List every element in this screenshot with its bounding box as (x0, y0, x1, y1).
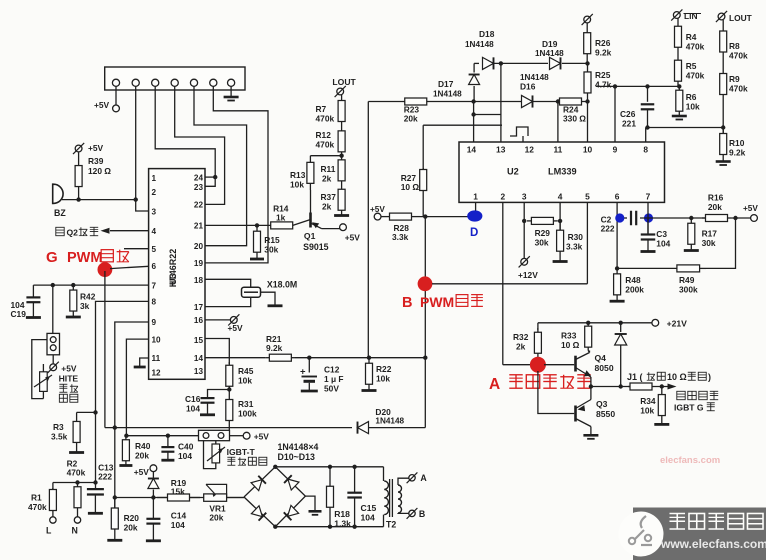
resistor R28 3.3k (381, 213, 420, 242)
terminal +5V (R16) (743, 204, 758, 221)
svg-text:LIN: LIN (684, 11, 698, 21)
svg-text:3: 3 (522, 192, 527, 202)
wire CN1 pin2 to U3 pin3 rail (136, 86, 149, 211)
label IGBT-T temp (227, 447, 267, 465)
svg-text:4: 4 (152, 227, 157, 236)
node R5/R6 (677, 84, 681, 88)
svg-text:5: 5 (152, 245, 157, 254)
wire U2 pin7 column (647, 202, 649, 234)
terminal +5V (R39 top) (73, 143, 104, 154)
svg-text:1: 1 (152, 174, 157, 183)
wire bridge right to ground (305, 496, 321, 515)
resistor R45 10k (226, 362, 254, 390)
svg-text:R32: R32 (513, 332, 529, 342)
wire pin9 line (596, 84, 679, 88)
resistor R4 470k (675, 19, 705, 56)
svg-text:+5V: +5V (743, 204, 758, 213)
svg-text:Q4: Q4 (595, 353, 607, 363)
svg-text:6: 6 (152, 262, 157, 271)
terminal +5V (clamp diode) (134, 465, 157, 477)
label to IGBT gate (674, 391, 718, 412)
label B PWM-in (red) (402, 294, 483, 311)
svg-text:R26: R26 (595, 38, 611, 48)
svg-text:470k: 470k (729, 51, 748, 61)
resistor R48 200k (610, 268, 645, 301)
wire R27 to R28 line (422, 192, 424, 217)
resistor R1 470k (28, 483, 56, 513)
thermistor HITE sensor (34, 364, 52, 399)
resistor R19 15k (157, 478, 200, 501)
potentiometer VR1 20k (204, 484, 227, 522)
transformer T2 core (390, 479, 393, 517)
wire U3 pin24 stub to rail (205, 175, 217, 179)
svg-text:+12V: +12V (518, 270, 538, 280)
svg-text:104: 104 (178, 451, 192, 461)
terminal +21V (652, 319, 687, 329)
svg-text:U2: U2 (507, 167, 519, 177)
svg-text:C12: C12 (324, 365, 340, 375)
node A (red dot) (530, 357, 546, 373)
wire CN1 pin4 staircase to U3 pin22 (175, 86, 225, 204)
svg-text:LOUT: LOUT (332, 77, 356, 87)
wire U3 pin15 (205, 339, 229, 365)
thermistor IGBT-T (204, 441, 226, 469)
svg-text:D20: D20 (375, 407, 391, 417)
resistor R11 2k (321, 156, 346, 185)
wire VR1 to bridge (227, 497, 244, 499)
wire mains rail y482 (53, 480, 98, 484)
svg-text:T2: T2 (386, 520, 396, 530)
diode (21V clamp) (615, 323, 627, 387)
resistor R18 1.3k (327, 467, 352, 529)
svg-text:470k: 470k (316, 114, 335, 124)
connector CN1 (8-pin header) (105, 67, 245, 90)
svg-text:C3: C3 (656, 229, 667, 239)
svg-text:104: 104 (186, 404, 200, 414)
terminal L (46, 512, 56, 536)
svg-text:4.7k: 4.7k (595, 80, 612, 90)
svg-text:2k: 2k (322, 202, 332, 212)
resistor R22 10k (362, 358, 392, 391)
resistor R17 30k (684, 218, 718, 251)
U2 pin numbers top (467, 145, 649, 155)
svg-text:20k: 20k (708, 202, 722, 212)
wire U3 pin18 to crystal (205, 279, 251, 287)
capacitor C13 222 (87, 463, 114, 514)
svg-text:470k: 470k (28, 502, 47, 512)
terminal LIN (671, 9, 701, 21)
diode D16 1N4148 (520, 73, 549, 108)
label 1N4148x4 D10~D13 (278, 442, 319, 462)
svg-text:22: 22 (194, 200, 204, 209)
svg-text:C15: C15 (361, 503, 377, 513)
svg-text:+5V: +5V (345, 233, 361, 243)
resistor R7 470k (316, 95, 346, 127)
svg-text:15: 15 (194, 336, 204, 345)
watermark box (bottom right) (619, 508, 766, 560)
wire U2 pin8 column (645, 128, 647, 143)
terminal +12V (518, 256, 538, 280)
wire R27 line (423, 124, 502, 126)
svg-text:D17: D17 (438, 79, 454, 89)
label HITE (59, 374, 79, 403)
wire U2 pin5 column (586, 202, 588, 283)
svg-text:R39: R39 (88, 156, 104, 166)
svg-text:PWM: PWM (67, 250, 102, 266)
label R49 (679, 275, 698, 295)
resistor R15 30k (250, 225, 280, 259)
svg-text:50V: 50V (324, 384, 339, 394)
svg-text:2: 2 (500, 192, 505, 202)
IC U2 LM339 (459, 142, 665, 202)
resistor R37 2k (321, 185, 350, 216)
transistor Q1 S9015 (293, 190, 340, 252)
node D (blue) (467, 210, 482, 239)
IC U3 HT46R22 (149, 169, 205, 380)
svg-text:9: 9 (152, 318, 157, 327)
svg-text:104: 104 (656, 239, 670, 249)
svg-text:24: 24 (194, 173, 204, 182)
svg-text:120 Ω: 120 Ω (88, 166, 111, 176)
svg-text:15k: 15k (171, 487, 185, 497)
svg-text:D19: D19 (542, 39, 558, 49)
svg-text:R33: R33 (561, 331, 577, 341)
capacitor C15 104 (347, 467, 376, 527)
svg-text:10k: 10k (686, 102, 700, 112)
wire D18 line (474, 62, 479, 64)
svg-text:13: 13 (194, 367, 204, 376)
svg-text:R12: R12 (316, 130, 332, 140)
svg-text:R15: R15 (264, 235, 280, 245)
diode D17 1N4148 (433, 63, 480, 101)
svg-text:): ) (708, 372, 711, 382)
svg-text:IGBT G: IGBT G (674, 403, 704, 413)
wire HITE loop (32, 340, 47, 399)
U3 pin numbers right (194, 173, 204, 376)
resistor R29 30k (527, 217, 558, 247)
resistor J1 (628, 383, 654, 390)
svg-text:10: 10 (583, 145, 593, 155)
svg-text:10k: 10k (376, 374, 390, 384)
resistor R40 20k (119, 436, 150, 466)
node R12/R11 (339, 154, 343, 158)
svg-text:20k: 20k (135, 451, 149, 461)
diode D19 1N4148 (535, 39, 564, 69)
wire U2 pin2 column (502, 202, 504, 364)
wire pin2 to node A (503, 364, 532, 366)
node R45/R31 junction (227, 387, 231, 391)
terminal +5V (IGBT-T) (243, 432, 269, 442)
wire U2 pin13 column (500, 63, 502, 142)
svg-text:1N4148: 1N4148 (535, 49, 564, 58)
resistor R25 4.7k (584, 63, 612, 101)
resistor R16 20k (702, 193, 731, 222)
wire R9 to R10 (722, 105, 724, 137)
wire R13 top to LOUT rail (310, 155, 341, 157)
svg-text:14: 14 (194, 354, 204, 363)
svg-text:3.5k: 3.5k (51, 432, 68, 442)
svg-text:R17: R17 (702, 229, 718, 239)
svg-text:1N4148×4: 1N4148×4 (278, 442, 319, 452)
capacitor C14 104 (146, 498, 187, 541)
svg-text:www.elecfans.com: www.elecfans.com (660, 537, 766, 551)
wire U2 pin9 column (613, 84, 617, 142)
resistor R13 10k (290, 156, 314, 190)
svg-text:12: 12 (152, 368, 162, 377)
terminal B (407, 508, 426, 519)
diode D (5V clamp) (148, 472, 159, 498)
svg-text:HITE: HITE (59, 374, 79, 384)
svg-text:19: 19 (194, 259, 204, 268)
svg-text:18: 18 (194, 276, 204, 285)
svg-text:IGBT-T: IGBT-T (227, 447, 256, 457)
svg-text:23: 23 (194, 183, 204, 192)
crystal X18.0M (242, 280, 298, 298)
svg-text:+5V: +5V (61, 364, 77, 374)
wire R23 to D16 to R24 (429, 99, 556, 103)
svg-text:R7: R7 (316, 104, 327, 114)
svg-text:11: 11 (152, 354, 161, 363)
wire U2 pin3 column (522, 202, 526, 258)
resistor R20 20k (107, 498, 139, 541)
svg-text:R49: R49 (679, 275, 695, 285)
U3 pin numbers left (152, 174, 162, 377)
svg-text:R25: R25 (595, 70, 611, 80)
wire temp-sense line (124, 434, 198, 438)
svg-text:1 μ F: 1 μ F (324, 374, 344, 384)
svg-text:20k: 20k (124, 523, 138, 533)
resistor R6 10k (672, 86, 700, 119)
diode D12 (bridge bottom-left) (251, 506, 266, 521)
svg-text:R18: R18 (334, 509, 350, 519)
label J1 (627, 372, 711, 382)
U2 pin numbers bottom (473, 192, 650, 202)
svg-text:C14: C14 (171, 511, 187, 521)
svg-text:1N4148: 1N4148 (433, 90, 462, 99)
resistor R30 3.3k (553, 221, 584, 262)
svg-text:D16: D16 (520, 82, 536, 92)
transformer T2 primary (384, 467, 389, 527)
svg-text:+21V: +21V (667, 319, 688, 329)
connector HITE (2-pin) (47, 333, 60, 354)
node B (red dot) (418, 276, 433, 291)
svg-text:2k: 2k (322, 174, 332, 184)
svg-text:2k: 2k (516, 342, 526, 352)
svg-text:9.2k: 9.2k (266, 343, 283, 353)
svg-text:R8: R8 (729, 41, 740, 51)
svg-text:R22: R22 (376, 364, 392, 374)
wire pin13-pin14 jog (474, 114, 501, 116)
resistor R39 120ohm (75, 153, 111, 200)
svg-text:30k: 30k (702, 238, 716, 248)
svg-text:X18.0M: X18.0M (267, 280, 297, 290)
svg-text:9: 9 (613, 145, 618, 155)
wire R25 to U2 pin10 (587, 102, 589, 143)
ground (CN1 pin7) (224, 86, 239, 100)
wire B line to U2 pin5 (432, 283, 587, 285)
wire R16 to +5V (731, 216, 751, 220)
wire R49 to R16 node (706, 218, 736, 268)
svg-text:R4: R4 (686, 32, 697, 42)
svg-text:470k: 470k (686, 71, 705, 81)
svg-text:R11: R11 (321, 164, 336, 174)
svg-text:R29: R29 (535, 228, 551, 238)
wire U3 pin10 rail (126, 339, 148, 436)
svg-text:R3: R3 (53, 422, 64, 432)
svg-text:1N4148: 1N4148 (375, 417, 404, 426)
wire IGBT-T to +5V (230, 435, 244, 437)
wire D18-D19 (494, 61, 548, 65)
svg-text:+5V: +5V (94, 100, 110, 110)
svg-text:10k: 10k (640, 406, 654, 416)
svg-text:470k: 470k (67, 468, 86, 478)
svg-text:11: 11 (553, 145, 562, 155)
svg-text:470k: 470k (686, 42, 705, 52)
terminal +5V (HITE) (48, 355, 77, 374)
wire pin11 column (556, 99, 560, 142)
svg-text:470k: 470k (729, 84, 748, 94)
resistor R21 9.2k (266, 334, 295, 361)
wire BZ to pin3 rail (62, 197, 138, 201)
svg-text:7: 7 (646, 192, 651, 202)
transistor Q4 8050 (576, 351, 614, 387)
label A drive-base (red) (489, 375, 591, 393)
svg-text:R40: R40 (135, 441, 151, 451)
watermark elecfans pink (660, 455, 720, 466)
resistor R9 470k (720, 63, 748, 105)
wire stub U3 pin5 (124, 248, 149, 250)
svg-text:+5V: +5V (134, 467, 150, 477)
svg-text:R6: R6 (686, 92, 697, 102)
diode D20 1N4148 (358, 407, 405, 434)
svg-text:A: A (420, 473, 427, 483)
capacitor C19 104 (11, 285, 41, 319)
wire G rail down to D20 line (104, 271, 106, 428)
resistor R12 470k (316, 127, 346, 156)
svg-text:C26: C26 (620, 109, 636, 119)
wire U2 pin14 column (471, 102, 475, 143)
svg-text:10k: 10k (238, 376, 252, 386)
wire arrow U3 pin4 (101, 228, 149, 234)
svg-text:G: G (46, 249, 58, 266)
resistor R27 10ohm (401, 125, 427, 192)
wire D20 to B column (369, 427, 425, 429)
wire R23 line (368, 101, 402, 103)
resistor R42 3k (66, 285, 96, 317)
diode D11 (bridge top-right) (284, 475, 299, 490)
svg-text:9.2k: 9.2k (729, 148, 746, 158)
wire J1 line (589, 384, 631, 388)
svg-text:A: A (489, 376, 500, 393)
svg-text:+5V: +5V (228, 323, 244, 333)
svg-text:R16: R16 (708, 193, 724, 203)
svg-text:R31: R31 (238, 399, 254, 409)
connector IGBT-T (2-pin) (199, 430, 230, 440)
resistor R24 330ohm (556, 98, 586, 124)
wire A down to Q3 base (538, 371, 574, 414)
terminal +5V (Q1) (340, 224, 361, 243)
wire C2 right to R16 (640, 216, 706, 220)
transformer T2 secondary (386, 478, 409, 529)
resistor R49 300k (617, 265, 706, 272)
bridge frame D10-D13 (244, 467, 305, 527)
wire R23 rail (long vertical) (367, 102, 369, 358)
svg-text:20k: 20k (209, 513, 223, 523)
svg-text:elecfans.com: elecfans.com (660, 455, 720, 466)
svg-text:30k: 30k (535, 238, 549, 248)
resistor R10 9.2k (716, 128, 746, 166)
resistor R5 470k (675, 55, 705, 86)
wire CN1 pin6 staircase to U3 pin19 (205, 86, 268, 263)
svg-text:330 Ω: 330 Ω (563, 114, 586, 124)
svg-text:3.3k: 3.3k (566, 242, 583, 252)
svg-text:3: 3 (152, 208, 157, 217)
label R2 (67, 459, 86, 478)
resistor R31 100k (226, 390, 257, 431)
svg-text:221: 221 (622, 119, 636, 129)
ground (Q3 collector) (583, 435, 598, 439)
svg-text:LM339: LM339 (548, 167, 577, 177)
resistor R26 9.2k (584, 23, 612, 63)
svg-text:6: 6 (615, 192, 620, 202)
svg-text:30k: 30k (264, 245, 278, 255)
node C2 left (blue) (615, 213, 624, 222)
svg-text:12: 12 (525, 145, 535, 155)
svg-text:14: 14 (467, 145, 477, 155)
terminal N (72, 517, 81, 536)
svg-text:300k: 300k (679, 285, 698, 295)
diode D18 1N4148 (465, 29, 495, 69)
svg-text:+5V: +5V (88, 143, 104, 153)
svg-text:10: 10 (152, 335, 162, 344)
svg-text:R9: R9 (729, 74, 740, 84)
svg-text:8: 8 (643, 145, 648, 155)
svg-text:10 Ω: 10 Ω (401, 182, 420, 192)
svg-text:20: 20 (194, 242, 204, 251)
svg-text:R13: R13 (290, 170, 306, 180)
svg-text:L: L (46, 526, 52, 536)
terminal +5V (U3 pin16) (205, 314, 243, 333)
wire U3 pin8 rail (93, 301, 148, 482)
svg-text:R48: R48 (625, 275, 641, 285)
resistor R14 1k (271, 204, 293, 229)
svg-text:5: 5 (585, 192, 590, 202)
svg-text:3.3k: 3.3k (392, 232, 409, 242)
wire R21 to R22 to B-column (295, 356, 427, 360)
svg-text:D10~D13: D10~D13 (278, 452, 316, 462)
svg-text:100k: 100k (238, 409, 257, 419)
node R48 junction (615, 266, 619, 270)
wire bridge top rail (273, 465, 383, 469)
svg-text:16: 16 (194, 316, 204, 325)
svg-text:104: 104 (361, 513, 376, 523)
capacitor C16 104 (185, 390, 229, 415)
svg-text:R5: R5 (686, 61, 697, 71)
wire U2 pin4 column (558, 202, 562, 231)
wire A to Q4 base (544, 364, 574, 366)
wire U3 pin7 to C19 line (33, 283, 148, 287)
svg-text:1: 1 (473, 192, 478, 202)
wire U2 pin1 column (475, 202, 477, 212)
wire D20 line (105, 425, 352, 429)
svg-text:N: N (72, 526, 78, 536)
terminal LOUT (right) (716, 11, 753, 23)
wire CN1 pin5 staircase to U3 pin20 (194, 86, 247, 245)
svg-text:R45: R45 (238, 366, 254, 376)
capacitor C26 221 (620, 86, 654, 128)
svg-text:200k: 200k (625, 285, 644, 295)
wire U3 pin9 rail (115, 322, 149, 428)
